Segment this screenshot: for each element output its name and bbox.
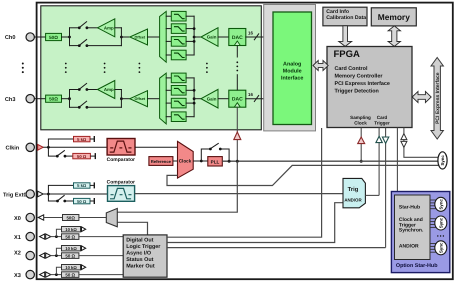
svg-text:Sampling: Sampling — [350, 115, 371, 120]
DAC clock feed row1 — [236, 46, 238, 58]
svg-text:Calibration Data: Calibration Data — [326, 15, 366, 21]
resistor 5k pullup branch — [48, 139, 73, 147]
wire digital out to trig logic — [167, 203, 343, 243]
sampling clock line — [222, 160, 438, 162]
resistor 50 ohm trigger termination — [65, 200, 74, 202]
star-hub logic box — [395, 195, 431, 260]
svg-text:Synchron.: Synchron. — [399, 228, 424, 234]
svg-text:Trig: Trig — [348, 186, 359, 193]
clock mux output — [193, 160, 208, 162]
svg-text:Trigger Detection: Trigger Detection — [335, 88, 379, 94]
svg-text:50 Ω: 50 Ω — [77, 154, 87, 159]
wire — [50, 274, 61, 276]
X0 connector — [26, 213, 34, 221]
clock input connector — [26, 143, 34, 151]
option star-hub box — [391, 192, 449, 273]
digital out box — [123, 235, 167, 277]
ellipsis dots columns between channel rows — [22, 63, 208, 74]
FPGA line to star-hub — [396, 128, 398, 196]
clock comparator — [107, 139, 135, 156]
FPGA box — [327, 47, 412, 128]
svg-text:Marker Out: Marker Out — [126, 263, 155, 269]
ellipsis dots — [437, 235, 444, 236]
sync arrows up down — [401, 134, 407, 140]
X3 connector — [26, 270, 34, 278]
svg-text:Card Control: Card Control — [335, 66, 368, 72]
wire — [43, 193, 107, 195]
FPGA card trigger out stub — [385, 128, 387, 248]
clock branch to X0 mux — [117, 161, 237, 212]
resistor 50 ohm X1 — [62, 234, 79, 240]
wire mux input from digital out — [117, 222, 147, 235]
svg-text:Sync: Sync — [438, 217, 443, 228]
svg-text:Interface: Interface — [281, 76, 303, 82]
resistor 50 ohm X0 — [63, 215, 79, 221]
Memory box — [371, 8, 416, 26]
star-hub sync connector 3 — [430, 244, 437, 253]
switch 50 ohm termination branch — [48, 147, 57, 156]
svg-text:Memory: Memory — [378, 12, 410, 22]
svg-text:5 kΩ: 5 kΩ — [77, 137, 87, 142]
wire to X0 mux — [79, 217, 106, 219]
svg-text:Card Info: Card Info — [326, 9, 349, 15]
wire X1 to digital box — [79, 236, 123, 238]
svg-text:Memory Controller: Memory Controller — [335, 73, 384, 79]
X2 bidirectional arrows — [40, 253, 45, 258]
wire digital out to FPGA trigger — [167, 247, 386, 249]
clock mux — [178, 141, 194, 178]
svg-text:Ch0: Ch0 — [5, 34, 16, 41]
channel row Ch0 — [26, 11, 273, 62]
arrow FPGA to PCI bus bidirectional — [412, 91, 431, 102]
svg-text:Logic Trigger: Logic Trigger — [126, 244, 161, 250]
svg-text:Option Star-Hub: Option Star-Hub — [396, 263, 438, 269]
clock input arrow — [38, 144, 44, 150]
svg-text:Clock: Clock — [354, 121, 367, 126]
X0 output mux — [106, 208, 117, 226]
svg-text:10 kΩ: 10 kΩ — [65, 246, 77, 251]
Reference oscillator box — [149, 157, 173, 166]
arrow memory to FPGA bidirectional — [388, 26, 400, 47]
svg-text:Card: Card — [377, 115, 388, 120]
svg-text:X0: X0 — [14, 216, 21, 222]
svg-text:AND/OR: AND/OR — [399, 244, 419, 250]
svg-text:50 Ω: 50 Ω — [77, 199, 87, 204]
clock arrow into FPGA — [358, 137, 365, 144]
svg-text:Async I/O: Async I/O — [126, 250, 151, 256]
trigger arrow into FPGA — [376, 136, 382, 142]
PLL bypass switch — [201, 149, 210, 161]
svg-text:10 kΩ: 10 kΩ — [65, 265, 77, 270]
svg-text:Status Out: Status Out — [126, 257, 153, 263]
resistor 50 ohm X2 — [62, 253, 79, 259]
analog module interface carrier strip — [264, 5, 316, 131]
resistor 10k X1 — [56, 229, 61, 236]
X3 bidirectional arrows — [40, 272, 45, 277]
wire trig logic output to FPGA — [365, 194, 379, 196]
svg-text:10 kΩ: 10 kΩ — [65, 227, 77, 232]
clock arrow into module — [234, 132, 241, 140]
svg-text:Trig Ext0: Trig Ext0 — [3, 191, 27, 198]
resistor 5k trigger pullup — [48, 185, 73, 194]
trigger input arrow — [38, 191, 44, 197]
svg-text:Analog: Analog — [283, 62, 301, 68]
wire X2 to digital box — [79, 255, 123, 257]
wire X3 to digital box — [79, 274, 123, 276]
svg-text:X1: X1 — [14, 235, 21, 241]
X0 out arrow — [38, 215, 43, 220]
svg-text:Digital Out: Digital Out — [126, 237, 153, 243]
svg-text:X3: X3 — [14, 273, 21, 279]
FPGA sampling clock stub — [360, 128, 362, 162]
channel row Ch3 — [26, 73, 273, 124]
svg-text:Trigger: Trigger — [374, 121, 390, 126]
X1 connector — [26, 232, 34, 240]
wire digital out to module — [167, 128, 322, 237]
svg-text:Reference: Reference — [151, 159, 172, 164]
svg-text:Sync: Sync — [440, 155, 445, 166]
svg-text:Clkin: Clkin — [6, 145, 20, 152]
resistor 50 ohm X3 — [62, 272, 79, 278]
wire — [50, 255, 61, 257]
sync connector card edge — [438, 152, 447, 169]
PCI Express Interface bus bar — [431, 58, 443, 140]
svg-text:Sync: Sync — [438, 242, 443, 253]
sampling clock into module — [236, 107, 238, 161]
svg-text:PLL: PLL — [211, 159, 220, 164]
arrow card info to FPGA — [339, 26, 352, 47]
node trig — [47, 193, 50, 196]
svg-text:Sync: Sync — [438, 199, 443, 210]
svg-text:5 kΩ: 5 kΩ — [77, 183, 87, 188]
svg-text:50 Ω: 50 Ω — [65, 235, 75, 240]
svg-text:AND/OR: AND/OR — [344, 198, 362, 203]
Card Info / Calibration Data box — [323, 7, 367, 26]
svg-text:50Ω: 50Ω — [66, 216, 75, 221]
svg-text:Star-Hub: Star-Hub — [399, 204, 420, 210]
svg-text:50 Ω: 50 Ω — [65, 273, 75, 278]
wire trigger comparator to trig logic — [135, 193, 343, 195]
trigger arrow out of FPGA — [382, 137, 388, 143]
arrow analog module interface to FPGA bidirectional — [313, 60, 328, 70]
node clkin — [47, 146, 50, 149]
star-hub sync connector 1 — [430, 200, 437, 209]
svg-text:PCI Express Interface: PCI Express Interface — [335, 81, 390, 87]
wire — [44, 217, 63, 219]
trigger comparator — [108, 186, 135, 202]
svg-text:Clock: Clock — [179, 158, 192, 163]
node sampling clock — [360, 160, 363, 163]
wire comparator to clock mux — [135, 146, 178, 148]
DAC clock feed row2 — [236, 74, 238, 90]
resistor 50 ohm termination — [65, 155, 73, 157]
ellipsis dots clock column — [236, 61, 238, 71]
X1 bidirectional arrows — [40, 234, 45, 239]
trigger AND/OR logic box — [343, 178, 365, 207]
svg-text:Module: Module — [283, 69, 302, 75]
wire — [43, 146, 107, 148]
FPGA sync line — [404, 128, 439, 158]
external clock feedback wire from star-hub — [167, 165, 438, 185]
wire — [50, 236, 61, 238]
star-hub sync connector 2 — [430, 219, 437, 228]
FPGA card trigger in stub — [378, 128, 380, 196]
svg-text:X2: X2 — [14, 250, 21, 256]
resistor 10k X2 — [56, 248, 61, 255]
resistor 10k X3 — [56, 267, 61, 274]
X2 connector — [26, 251, 34, 259]
trigger input connector — [26, 190, 34, 198]
svg-text:FPGA: FPGA — [334, 49, 361, 60]
svg-text:PCI Express Interface: PCI Express Interface — [435, 72, 441, 124]
svg-text:Comparator: Comparator — [107, 157, 135, 163]
switch trigger 50 ohm termination — [48, 194, 57, 201]
svg-text:Ch3: Ch3 — [5, 96, 16, 103]
analog module green box — [41, 6, 261, 130]
analog module interface box — [273, 12, 312, 125]
svg-text:Comparator: Comparator — [107, 179, 135, 185]
svg-text:50 Ω: 50 Ω — [65, 254, 75, 259]
PLL box — [208, 157, 223, 166]
